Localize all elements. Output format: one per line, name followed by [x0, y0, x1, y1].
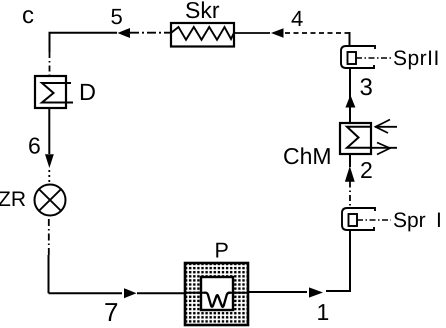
- condenser Skr box: [171, 23, 234, 47]
- wire: arrow 7 to evaporator P: [137, 292, 185, 294]
- wire: dash-dot segment corner down to D: [49, 52, 51, 76]
- arrow head at node 6 (flow down): [45, 154, 54, 168]
- heating element W inside evaporator: [204, 293, 231, 307]
- wire: D down to arrow 6: [48, 108, 50, 154]
- arrow head at node 2 (flow up): [345, 166, 355, 182]
- intercooler ChM box: [340, 123, 372, 154]
- wire: Spr II down to arrow 3 and ChM: [349, 68, 351, 123]
- compressor Spr II cylinder: [341, 46, 391, 68]
- arrow head at node 7 (flow right): [124, 288, 137, 298]
- svg-text:D: D: [79, 79, 96, 105]
- wire: Spr I down to bottom-right corner, then left to arrow 1: [326, 230, 350, 291]
- svg-text:SprII: SprII: [393, 47, 440, 70]
- arrow head at node 1 (flow right): [309, 287, 323, 297]
- expansion valve ZR: [35, 185, 66, 216]
- svg-text:7: 7: [104, 297, 118, 327]
- wire: Skr to arrow 4: [234, 32, 270, 34]
- svg-text:P: P: [215, 239, 229, 263]
- svg-text:2: 2: [360, 157, 373, 183]
- wire: bottom-left corner to arrow 7: [49, 292, 123, 294]
- compressor Spr I cylinder: [342, 208, 391, 230]
- svg-text:Spr: Spr: [393, 209, 426, 232]
- wire: ChM down to arrow 2: [349, 154, 351, 167]
- svg-text:3: 3: [360, 74, 373, 101]
- arrow head at node 3 (flow up): [345, 95, 355, 108]
- svg-text:5: 5: [111, 4, 123, 29]
- arrow head at node 5 (flow left): [118, 28, 131, 38]
- svg-text:ChM: ChM: [283, 143, 332, 169]
- wire: dash-dot segment from arrow 5 to Skr: [130, 32, 171, 34]
- intercooler inlet arrow (open chevron, flow left): [375, 120, 397, 134]
- svg-text:ZR: ZR: [0, 188, 26, 211]
- wire: left riser bottom section (corner up to ZR): [48, 255, 50, 293]
- wire: top-left corner to arrow 5: [50, 33, 118, 52]
- arrow head at node 4 (flow left): [271, 28, 284, 38]
- wire passing through evaporator: [185, 292, 206, 294]
- svg-text:Skr: Skr: [185, 0, 220, 23]
- svg-text:1: 1: [317, 299, 330, 325]
- wire: dashed segment from arrow 4 to top-right corner, then down to Spr II: [285, 32, 350, 34]
- svg-text:6: 6: [28, 133, 41, 159]
- evaporator P outer stippled box: [185, 263, 248, 325]
- wire: dash-dot segment from arrow 2 to Spr I: [349, 182, 351, 209]
- subcooler D box: [35, 76, 73, 108]
- wire: dotted segment arrow 6 to ZR: [48, 170, 50, 184]
- intercooler outlet arrow (open chevron, flow right): [372, 143, 397, 155]
- wire: evaporator P to arrow 1: [248, 291, 307, 293]
- svg-text:I: I: [436, 209, 442, 232]
- svg-text:c: c: [22, 2, 34, 29]
- svg-text:4: 4: [291, 6, 303, 31]
